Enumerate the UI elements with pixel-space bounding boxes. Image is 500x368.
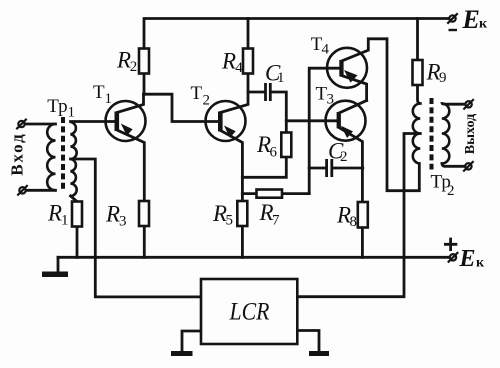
svg-text:2: 2 bbox=[130, 59, 138, 75]
svg-text:4: 4 bbox=[235, 60, 243, 76]
svg-text:6: 6 bbox=[270, 145, 278, 161]
svg-text:3: 3 bbox=[119, 214, 127, 230]
svg-text:R: R bbox=[105, 202, 120, 227]
svg-text:R: R bbox=[47, 201, 62, 226]
svg-text:E: E bbox=[462, 5, 480, 34]
svg-text:Тр: Тр bbox=[47, 96, 67, 117]
svg-text:к: к bbox=[479, 17, 488, 32]
svg-text:7: 7 bbox=[272, 213, 280, 229]
svg-text:R: R bbox=[116, 48, 131, 73]
svg-text:1: 1 bbox=[277, 70, 285, 86]
svg-text:к: к bbox=[476, 256, 485, 271]
svg-text:2: 2 bbox=[203, 93, 211, 109]
svg-text:Т: Т bbox=[93, 82, 105, 103]
svg-text:3: 3 bbox=[327, 92, 335, 108]
svg-text:8: 8 bbox=[350, 214, 358, 230]
svg-text:9: 9 bbox=[439, 70, 447, 86]
svg-text:R: R bbox=[221, 49, 236, 74]
svg-text:Вход: Вход bbox=[8, 132, 27, 176]
svg-text:1: 1 bbox=[105, 91, 113, 107]
svg-text:2: 2 bbox=[447, 183, 455, 199]
svg-text:E: E bbox=[459, 246, 476, 272]
svg-text:Выход: Выход bbox=[463, 114, 478, 154]
svg-text:4: 4 bbox=[322, 42, 330, 58]
svg-text:1: 1 bbox=[61, 213, 69, 229]
svg-text:2: 2 bbox=[340, 149, 348, 165]
svg-text:Т: Т bbox=[191, 83, 203, 104]
svg-text:5: 5 bbox=[226, 213, 234, 229]
svg-text:LCR: LCR bbox=[229, 299, 270, 326]
svg-text:1: 1 bbox=[68, 105, 76, 121]
